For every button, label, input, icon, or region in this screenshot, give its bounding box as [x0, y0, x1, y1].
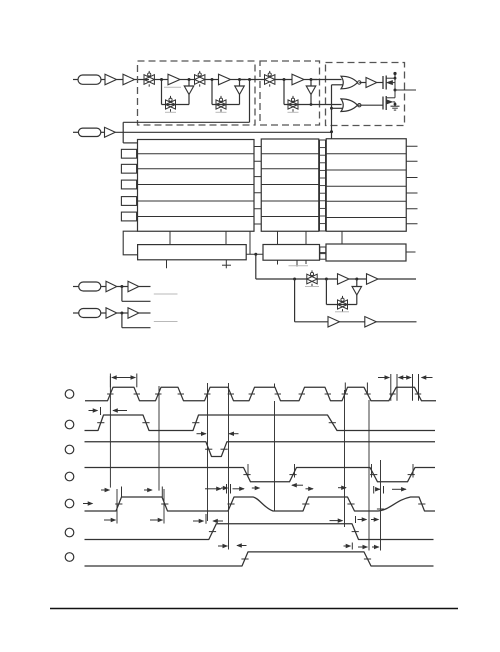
register block RB2 — [261, 139, 319, 231]
label t1 — [165, 111, 176, 113]
label t3 — [288, 111, 299, 113]
wire G2 gate to NMOS — [358, 104, 360, 106]
buffer U8 — [338, 274, 350, 285]
wire — [205, 79, 219, 81]
NOR gate G1 — [341, 76, 358, 89]
pad D0 — [121, 149, 136, 158]
feedback transmission gate TF2 — [216, 100, 226, 109]
wire G2 input 2 — [332, 107, 343, 109]
edge ticks W6 — [209, 531, 216, 533]
wire latch to delay cell — [255, 254, 257, 279]
wire — [117, 286, 128, 288]
wire — [101, 312, 106, 314]
node — [120, 312, 123, 315]
dimension arrows W6 — [193, 520, 204, 522]
feedback transmission gate TF4 — [325, 279, 327, 305]
wire — [275, 79, 292, 81]
pad D1 — [121, 164, 136, 173]
wire — [117, 79, 124, 81]
node B1 — [188, 78, 191, 81]
wire — [180, 79, 195, 81]
wire row divider — [261, 168, 319, 170]
wire G1 input 2 — [332, 84, 343, 86]
node W5 — [65, 499, 74, 508]
waveform W5 — [85, 497, 436, 511]
feedback transmission gate TF3 — [288, 100, 298, 109]
dimension arrows W3 — [197, 433, 206, 435]
input pad P4 — [73, 312, 79, 314]
buffer B3b — [128, 281, 139, 292]
transistor Q1 (PMOS) — [382, 76, 384, 89]
edge reference ticks W1 — [107, 393, 113, 395]
wire — [139, 286, 151, 288]
latch row L3 — [326, 244, 406, 261]
bottom rule — [50, 608, 458, 610]
wire row divider — [326, 185, 406, 187]
pad D4 — [121, 212, 136, 221]
wire — [240, 79, 265, 81]
buffer U10 — [328, 317, 340, 328]
wire P2 net — [115, 131, 331, 133]
faint label — [154, 321, 178, 323]
latch row L1 — [138, 245, 247, 260]
inverter I3 (down) — [310, 80, 312, 87]
node J1 — [248, 78, 251, 81]
node A4 — [325, 278, 328, 281]
dimension arrows W2 — [89, 410, 98, 412]
wire — [101, 131, 105, 133]
NOR gate G2 — [341, 99, 358, 112]
wire — [359, 82, 366, 84]
dimension arrows W7 — [218, 545, 227, 547]
inverter I4 (down) — [356, 279, 358, 287]
dimension arrows W1 pulse width — [112, 377, 124, 379]
register block RB1 — [138, 140, 255, 232]
waveform W3 — [85, 442, 436, 457]
wire — [340, 321, 365, 323]
buffer U2 — [219, 74, 231, 85]
wire row divider — [261, 153, 319, 155]
connector box — [320, 254, 326, 260]
feedback transmission gate TF1 — [166, 100, 176, 109]
wire row divider — [326, 217, 406, 219]
wire L1-L2 link — [246, 253, 263, 255]
buffer B4a — [106, 308, 117, 319]
wire row divider — [138, 200, 255, 202]
edge ticks W5 — [115, 503, 122, 505]
dashed output block DB3 — [326, 63, 405, 126]
wire — [135, 79, 150, 81]
wire — [349, 278, 367, 280]
node W2 — [65, 420, 74, 429]
wire row divider — [138, 168, 255, 170]
wire — [101, 286, 106, 288]
latch output stub — [406, 251, 416, 253]
wire row divider — [261, 216, 319, 218]
test point marks — [166, 260, 168, 268]
wire row divider — [138, 153, 255, 155]
waveform W7 — [85, 552, 434, 566]
node — [120, 285, 123, 288]
VCC node — [393, 72, 396, 75]
edge ticks W4 — [243, 474, 250, 476]
register block RB3 — [326, 139, 406, 232]
wire row divider — [326, 169, 406, 171]
dimension arrows W1 last pulse — [378, 377, 389, 379]
faint label — [305, 286, 319, 288]
wire — [101, 79, 105, 81]
node — [330, 107, 333, 110]
wire — [188, 95, 190, 105]
wire cell3 low node to gate G2 — [311, 104, 342, 106]
wire branch — [121, 313, 123, 328]
wire — [310, 95, 312, 105]
waveform W6 — [85, 524, 434, 540]
edge ticks W2 — [97, 422, 104, 424]
node — [330, 130, 333, 133]
buffer U3 — [292, 74, 304, 85]
wire — [304, 79, 317, 81]
wire branch — [121, 287, 123, 302]
transmission gate TG4 — [307, 274, 317, 284]
wire — [239, 95, 241, 105]
node B4 — [355, 278, 358, 281]
ticks last pulses — [274, 384, 276, 388]
buffer U7 — [366, 78, 377, 88]
inverter I1 (down) — [188, 80, 190, 87]
node W4 — [65, 472, 74, 481]
dashed delay block DB2 — [260, 61, 320, 125]
transmission gate TG2 — [195, 75, 205, 85]
waveform W2 — [85, 415, 436, 431]
buffer B3a — [106, 281, 117, 292]
faint label — [335, 311, 349, 313]
connector box — [320, 247, 326, 253]
dimension arrows W5 — [101, 489, 109, 491]
wire riser P2 net — [331, 85, 333, 139]
wire — [117, 312, 128, 314]
wire out — [378, 278, 416, 280]
wire row divider — [326, 200, 406, 202]
node A1 — [160, 78, 163, 81]
wire — [139, 312, 151, 314]
node W1 — [65, 390, 74, 399]
input pad P1 — [73, 79, 78, 81]
wire — [231, 79, 246, 81]
node C3 — [310, 103, 313, 106]
node — [293, 278, 296, 281]
buffer U9 — [367, 274, 379, 285]
latch row L2 — [263, 245, 320, 261]
ladder column LC — [320, 140, 326, 231]
node B2 — [238, 78, 241, 81]
label t2 — [216, 111, 227, 113]
buffer chain lower branch wire — [294, 279, 296, 322]
node L — [254, 253, 257, 256]
wire out — [376, 321, 416, 323]
buffer B1 — [105, 74, 117, 85]
ground — [391, 105, 400, 107]
wire output — [395, 89, 416, 91]
wire interconnect stubs — [254, 146, 261, 148]
edge ticks W7 — [241, 558, 248, 560]
node W3 — [65, 445, 74, 454]
buffer B4b — [128, 308, 139, 319]
transmission gate TG1 — [144, 75, 154, 85]
input pad P3 — [73, 286, 79, 288]
waveform W1 (clock) — [85, 387, 436, 401]
dashed delay block DB1 — [138, 61, 256, 125]
node A2 — [211, 78, 214, 81]
wire row divider — [326, 153, 406, 155]
wire row divider — [261, 184, 319, 186]
bracket wire — [123, 231, 137, 255]
wire — [154, 79, 168, 81]
node OUT — [394, 89, 397, 92]
pad D3 — [121, 197, 136, 206]
buffer U1 — [168, 74, 180, 85]
node W7 — [65, 553, 74, 562]
transistor Q2 (NMOS) — [382, 97, 384, 110]
bypass wire — [249, 80, 251, 123]
buffer B3 — [105, 127, 116, 137]
node B3 — [310, 78, 313, 81]
input pad P2 — [73, 131, 78, 133]
edge ticks W3 — [205, 448, 212, 450]
dimension arrows W4 — [205, 488, 221, 490]
buffer B2 — [123, 74, 135, 85]
transmission gate TG3 — [265, 75, 275, 85]
wire row divider — [138, 216, 255, 218]
faint label under U1 — [164, 86, 181, 88]
pad D2 — [121, 180, 136, 189]
node A3 — [283, 78, 286, 81]
wire to output transistors — [377, 82, 383, 84]
waveform W4 — [85, 468, 436, 482]
inverter I2 (down) — [239, 80, 241, 87]
output stubs — [406, 145, 417, 147]
faint label — [154, 293, 178, 295]
reference arrow W5 — [83, 503, 93, 505]
buffer U11 — [365, 317, 377, 328]
wire stubs block to latch — [169, 231, 171, 244]
wire row divider — [138, 184, 255, 186]
wire node3 to gate G1 — [311, 79, 342, 81]
wire — [317, 278, 337, 280]
node W6 — [65, 528, 74, 537]
wire row divider — [261, 200, 319, 202]
long reference lines — [109, 376, 111, 488]
